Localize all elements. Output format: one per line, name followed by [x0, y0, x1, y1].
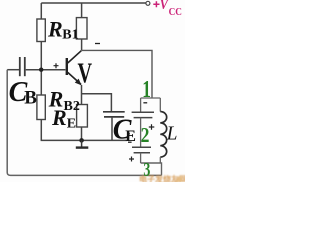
svg-text:L: L: [166, 123, 178, 144]
svg-text:V: V: [78, 58, 93, 89]
svg-text:2: 2: [141, 123, 150, 147]
svg-text:B1: B1: [62, 27, 78, 42]
svg-text:1: 1: [142, 75, 151, 103]
svg-text:CC: CC: [169, 7, 182, 19]
svg-text:B: B: [24, 87, 37, 108]
svg-text:E: E: [67, 116, 76, 131]
svg-text:R: R: [47, 17, 63, 42]
svg-text:R: R: [51, 105, 67, 130]
